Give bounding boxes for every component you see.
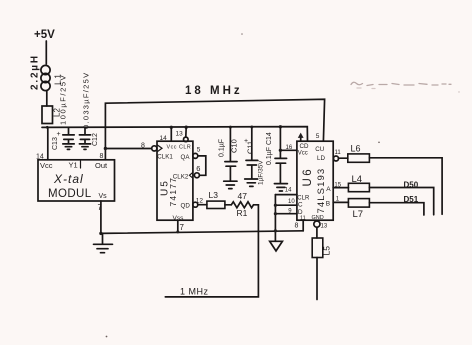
svg-text:C: C — [298, 201, 303, 208]
wire CLR/C/D down to ground triangle — [274, 195, 276, 242]
svg-text:7: 7 — [180, 223, 185, 232]
node rail junction dots — [46, 125, 282, 129]
svg-text:18 MHz: 18 MHz — [185, 85, 243, 97]
svg-text:Vs: Vs — [99, 193, 108, 200]
wire L6 to right — [369, 158, 442, 215]
svg-text:Vcc: Vcc — [40, 161, 53, 170]
wire BO to L5 — [316, 227, 318, 238]
svg-text:Out: Out — [95, 161, 108, 170]
wire ground rail — [101, 231, 303, 234]
wire to U6 pin 16 — [280, 149, 297, 151]
wire L3 to R1 — [225, 204, 231, 206]
svg-text:0.1µF: 0.1µF — [219, 139, 226, 157]
wire 18 MHz net — [105, 99, 324, 148]
pin 13 bubble (U6 BO) — [314, 221, 320, 227]
svg-text:11: 11 — [335, 150, 342, 156]
inductor L3 — [207, 190, 225, 209]
wire +5V to L1 — [45, 41, 47, 64]
pin CLK1 bubble — [152, 146, 157, 151]
svg-text:6: 6 — [196, 164, 200, 173]
inductor L7 — [348, 199, 369, 220]
pin CLK2 chevron — [189, 172, 192, 178]
svg-text:Vcc CLR: Vcc CLR — [167, 145, 192, 151]
capacitor C10 0.1uF — [219, 127, 239, 189]
wire C stub — [275, 204, 297, 206]
svg-text:C10: C10 — [230, 139, 239, 153]
svg-text:10: 10 — [288, 199, 295, 205]
wire U6 A pin to L4 — [333, 187, 348, 189]
wire U6 pin 8 GND down to rail — [302, 220, 304, 231]
svg-text:C13: C13 — [52, 137, 59, 150]
wire L7 to right (D51 net) — [369, 203, 424, 215]
node Out junction dot — [104, 147, 107, 150]
pin CLK1 clock chevron — [157, 145, 162, 152]
svg-text:0.033µF/25V: 0.033µF/25V — [82, 72, 91, 129]
wire module GND pin7 down to ground rail — [100, 201, 102, 233]
svg-text:5: 5 — [197, 147, 201, 154]
node U5 pin7 junction dot — [176, 230, 179, 233]
wire L4 to right (D50 net) — [369, 188, 433, 215]
counter U6 74LS193 box — [297, 141, 333, 220]
svg-text:12: 12 — [196, 197, 204, 204]
capacitor C11 1uF/35V — [244, 127, 265, 186]
svg-text:L4: L4 — [352, 174, 363, 185]
svg-text:13: 13 — [321, 223, 328, 229]
pin CLK2 bubble — [194, 173, 199, 178]
inductor L2 (ferrite bead) — [42, 106, 62, 124]
svg-text:8: 8 — [141, 143, 145, 150]
svg-text:1µF/35V: 1µF/35V — [258, 160, 265, 185]
svg-text:16: 16 — [286, 145, 293, 151]
svg-text:GND: GND — [312, 215, 324, 221]
svg-text:15: 15 — [334, 183, 341, 189]
capacitor C13 100uF/25V — [52, 74, 74, 150]
wire U5 pin7 to ground rail — [177, 220, 179, 232]
wire +5V rail — [42, 127, 308, 142]
svg-text:8: 8 — [100, 153, 104, 160]
ground triangle symbol — [270, 241, 283, 251]
inductor L1 2.2uH — [30, 54, 63, 90]
node stub junction dots — [274, 204, 277, 233]
counter U5 74177 box — [157, 141, 193, 220]
inductor L5 — [312, 238, 331, 258]
svg-text:C12: C12 — [92, 133, 99, 146]
wire CLR stub — [275, 194, 297, 196]
resistor R1 47 — [231, 191, 253, 218]
wire rail to U5 pin 14 — [170, 127, 172, 141]
wire L5 down — [316, 258, 318, 300]
wire module Out up and to CLK1 — [105, 149, 151, 160]
wire D stub — [275, 213, 297, 215]
svg-text:14: 14 — [285, 188, 292, 194]
svg-text:U6: U6 — [302, 167, 314, 187]
svg-text:8: 8 — [295, 223, 299, 230]
svg-text:+5V: +5V — [34, 29, 55, 41]
wire U6 B pin to L7 — [333, 201, 348, 203]
svg-text:74177: 74177 — [168, 177, 178, 207]
svg-text:14: 14 — [160, 135, 168, 142]
wire QD to L3 — [198, 204, 207, 206]
svg-text:5: 5 — [316, 133, 320, 140]
wire R1 to 1 MHz stub — [165, 205, 258, 297]
pin LD bubble — [334, 156, 339, 161]
pin QA bubble — [193, 153, 198, 158]
svg-text:Vcc: Vcc — [298, 151, 308, 157]
svg-text:L7: L7 — [353, 209, 364, 220]
svg-text:L6: L6 — [351, 143, 361, 153]
inductor L4 — [348, 174, 369, 192]
svg-text:100µF/25V: 100µF/25V — [59, 74, 68, 125]
svg-text:L5: L5 — [322, 246, 332, 256]
wire LD to L6 — [339, 157, 348, 159]
pin QD bubble — [193, 202, 198, 207]
node C14/pin16 junction dot — [279, 149, 282, 152]
svg-text:74LS193: 74LS193 — [316, 168, 327, 214]
svg-text:CU: CU — [315, 146, 324, 153]
inductor L6 — [348, 143, 370, 162]
capacitor C12 0.033uF/25V — [79, 72, 99, 150]
faint pencil smudge — [351, 82, 451, 88]
node ground rail junction dot — [99, 232, 102, 235]
svg-text:QA: QA — [181, 154, 191, 161]
svg-text:2.2µH: 2.2µH — [30, 54, 41, 90]
svg-text:A: A — [326, 186, 331, 193]
svg-text:Y1: Y1 — [69, 161, 78, 170]
svg-text:R1: R1 — [237, 208, 248, 218]
wire QA feedback loop to CLK2 — [198, 156, 206, 175]
svg-text:CD: CD — [300, 143, 309, 150]
capacitor C14 0.1uF — [266, 127, 287, 191]
svg-text:13: 13 — [176, 131, 184, 138]
X-tal oscillator module U box — [38, 160, 115, 201]
svg-text:QD: QD — [181, 202, 191, 209]
wire rail to U5 pin 13 CLR — [185, 127, 187, 137]
svg-text:CLK1: CLK1 — [157, 153, 173, 160]
svg-text:C11: C11 — [246, 141, 255, 154]
svg-text:X-tal: X-tal — [53, 172, 84, 186]
svg-text:D51: D51 — [404, 195, 419, 204]
power arrow on CD pin — [298, 133, 304, 142]
svg-text:LD: LD — [317, 155, 325, 162]
wire rail to module Vcc pin 14 — [47, 127, 49, 160]
svg-text:D50: D50 — [404, 180, 419, 189]
svg-text:1 MHz: 1 MHz — [180, 287, 209, 297]
ground symbol (module) — [94, 233, 113, 252]
svg-text:47: 47 — [238, 191, 248, 201]
paper specks — [106, 33, 460, 337]
wire L1 to L2 — [46, 91, 48, 107]
svg-text:L3: L3 — [209, 190, 219, 200]
svg-text:MODUL: MODUL — [48, 188, 92, 200]
pin 13 bubble (U5 CLR) — [184, 137, 189, 142]
svg-text:0.1µF C14: 0.1µF C14 — [266, 132, 273, 165]
svg-text:+: + — [57, 131, 61, 138]
